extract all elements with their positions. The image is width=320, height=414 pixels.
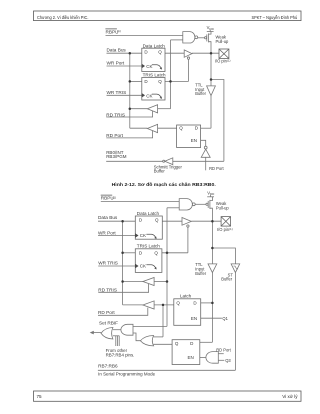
svg-text:VDD: VDD xyxy=(207,191,215,197)
svg-text:WR Port: WR Port xyxy=(107,61,125,66)
svg-text:Set RBIF: Set RBIF xyxy=(99,321,118,326)
svg-text:(1): (1) xyxy=(112,195,116,199)
svg-text:Buffer: Buffer xyxy=(154,169,166,174)
svg-text:Q: Q xyxy=(175,341,179,346)
svg-text:Q1: Q1 xyxy=(222,316,228,321)
svg-text:Data Bus: Data Bus xyxy=(98,215,118,220)
svg-text:EN: EN xyxy=(191,138,197,143)
svg-text:Vi xử lý: Vi xử lý xyxy=(282,393,298,399)
svg-text:WR TRIS: WR TRIS xyxy=(107,90,127,95)
svg-text:Buffer: Buffer xyxy=(221,276,232,281)
svg-text:TRIS Latch: TRIS Latch xyxy=(143,73,166,78)
svg-text:Pull-up: Pull-up xyxy=(216,39,229,44)
svg-text:75: 75 xyxy=(37,394,43,399)
svg-text:Buffer: Buffer xyxy=(195,91,206,96)
svg-text:Q: Q xyxy=(155,217,159,222)
svg-text:WR Port: WR Port xyxy=(98,231,116,236)
svg-text:Q: Q xyxy=(158,79,162,84)
svg-text:RD Port: RD Port xyxy=(98,310,115,315)
svg-text:RB7:RB4 pins.: RB7:RB4 pins. xyxy=(106,353,135,358)
svg-text:CK: CK xyxy=(146,64,152,69)
svg-text:EN: EN xyxy=(191,316,197,321)
svg-text:RD Port: RD Port xyxy=(209,166,224,171)
svg-text:Pull-up: Pull-up xyxy=(216,206,229,211)
svg-text:Chương 2. Vi điều khiển PIC.: Chương 2. Vi điều khiển PIC. xyxy=(37,14,89,20)
svg-text:Q3: Q3 xyxy=(225,358,231,363)
svg-text:CK: CK xyxy=(140,233,146,238)
svg-text:(1): (1) xyxy=(117,29,121,33)
svg-text:Latch: Latch xyxy=(180,294,192,299)
svg-text:Data Latch: Data Latch xyxy=(143,43,166,48)
svg-text:Buffer: Buffer xyxy=(195,271,206,276)
svg-text:RB7:RB6: RB7:RB6 xyxy=(98,363,118,368)
svg-text:TRIS Latch: TRIS Latch xyxy=(137,243,160,248)
svg-text:RB3/PGM: RB3/PGM xyxy=(106,154,127,159)
svg-text:RD Port: RD Port xyxy=(216,348,231,353)
svg-text:Q: Q xyxy=(179,126,183,131)
svg-text:RD TRIS: RD TRIS xyxy=(98,287,117,292)
svg-text:VDD: VDD xyxy=(207,25,215,31)
svg-text:WR TRIS: WR TRIS xyxy=(98,261,118,266)
svg-text:CK: CK xyxy=(140,264,146,269)
svg-text:RD TRIS: RD TRIS xyxy=(106,112,125,117)
svg-text:Q: Q xyxy=(154,250,158,255)
svg-text:In Serial Programming Mode: In Serial Programming Mode xyxy=(98,372,155,377)
svg-text:Data Bus: Data Bus xyxy=(107,48,127,53)
svg-text:Hình 2-12. Sơ đồ mạch các chân: Hình 2-12. Sơ đồ mạch các chân RB3:RB0. xyxy=(112,182,217,188)
svg-text:Data Latch: Data Latch xyxy=(137,211,160,216)
svg-text:SPKT – Nguyễn Đình Phú: SPKT – Nguyễn Đình Phú xyxy=(252,14,298,20)
svg-text:EN: EN xyxy=(188,355,194,360)
svg-text:Q: Q xyxy=(176,301,180,306)
svg-text:RD Port: RD Port xyxy=(106,133,123,138)
svg-text:CK: CK xyxy=(146,93,152,98)
svg-text:Q: Q xyxy=(158,50,162,55)
